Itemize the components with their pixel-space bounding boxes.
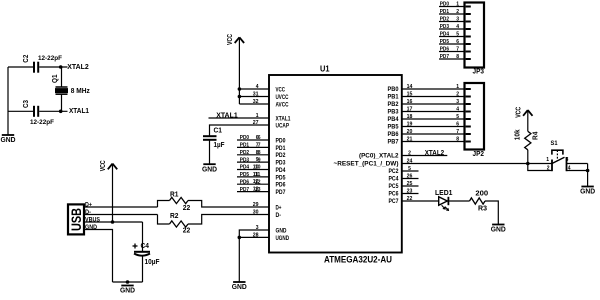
wire: net PD3 to IC [237, 161, 269, 163]
pin 19 (PB5) name+number [388, 121, 413, 130]
svg-text:PD7: PD7 [276, 189, 286, 196]
wire: PB1 to JP2 [402, 96, 465, 98]
wire: net PD5 to IC [237, 176, 269, 178]
svg-text:27: 27 [253, 120, 259, 126]
wire: XTAL1 net left [8, 110, 33, 112]
svg-text:PB3: PB3 [388, 109, 400, 116]
wire: GND pin 3 [239, 230, 269, 282]
crystal Q1 8MHz [52, 74, 90, 95]
svg-text:Q1: Q1 [52, 74, 59, 83]
wire: UVCC pin 31 [239, 96, 269, 98]
svg-text:UVCC: UVCC [276, 94, 289, 101]
svg-text:2: 2 [456, 91, 459, 97]
pin 29 (D+) name+number [253, 202, 282, 211]
svg-text:ATMEGA32U2-AU: ATMEGA32U2-AU [324, 254, 392, 264]
pin 2 ((PC0)_XTAL2) name+number [359, 150, 411, 159]
wire: PD3 net to JP3 [439, 28, 465, 30]
pin 13 (PD7) name+number [253, 187, 286, 196]
connector JP3 [465, 3, 485, 76]
svg-text:PD3: PD3 [276, 160, 286, 167]
wire: XTAL2 net left [8, 66, 33, 68]
svg-text:GND: GND [202, 164, 218, 173]
svg-text:8 MHz: 8 MHz [71, 88, 90, 95]
svg-text:1µF: 1µF [214, 142, 226, 149]
wire: XTAL2 net at IC [402, 155, 447, 157]
pin 8 (PD2) name+number [256, 150, 286, 159]
wire: USB D+ [84, 206, 158, 208]
svg-text:5: 5 [456, 114, 459, 120]
junction VCC/pin4 [238, 87, 242, 91]
resistor R3 200 [470, 191, 489, 213]
pin 7 (PD1) name+number [256, 142, 286, 151]
svg-text:13: 13 [255, 187, 261, 193]
svg-text:1: 1 [456, 84, 459, 90]
svg-text:PD3: PD3 [240, 157, 250, 163]
svg-text:UGND: UGND [276, 235, 290, 242]
svg-text:USB: USB [69, 208, 84, 231]
wire: PC5 stub [402, 185, 419, 187]
pin 10 (PD4) name+number [253, 165, 286, 174]
svg-text:6: 6 [456, 121, 459, 127]
wire: VBUS [84, 221, 143, 223]
svg-text:PD1: PD1 [240, 143, 250, 149]
svg-text:UCAP: UCAP [276, 122, 290, 129]
wire: net PD0 to IC [237, 139, 269, 141]
power VCC (IC supply) [227, 34, 244, 45]
svg-text:PB2: PB2 [388, 101, 400, 108]
wire: D- jog down [158, 215, 170, 225]
svg-text:8: 8 [456, 136, 459, 142]
svg-text:PD5: PD5 [240, 172, 250, 178]
pin 32 (AVCC) name+number [253, 99, 289, 108]
svg-text:200: 200 [475, 191, 488, 198]
svg-text:PD2: PD2 [240, 150, 249, 156]
svg-text:22: 22 [183, 205, 191, 212]
svg-text:PC5: PC5 [389, 183, 399, 190]
wire: jog to S1 pin 2 [528, 164, 552, 171]
power VCC (R4) [515, 107, 532, 118]
svg-text:PB5: PB5 [388, 124, 400, 131]
pin 4 (VCC) name+number [256, 84, 286, 93]
svg-text:8: 8 [258, 150, 261, 156]
svg-text:2: 2 [547, 165, 550, 171]
wire: net PD7 to IC [237, 191, 269, 193]
wire: R4 to RESET [527, 150, 529, 164]
pin 14 (PB0) name+number [388, 84, 414, 93]
wire: PC6 stub [402, 193, 419, 195]
svg-text:S1: S1 [551, 140, 558, 147]
svg-text:12: 12 [255, 179, 261, 185]
junction GND/UGND [238, 236, 242, 240]
pin 5 (PC2) name+number [389, 166, 411, 175]
wire: PB5 to JP2 [402, 126, 465, 128]
svg-text:PD7: PD7 [240, 187, 249, 193]
ground GND (R3) [491, 225, 507, 234]
svg-text:JP2: JP2 [473, 151, 485, 158]
node XTAL2 junction [59, 65, 63, 69]
wire: VCC to VBUS [112, 164, 114, 222]
svg-text:VCC: VCC [276, 86, 286, 93]
pin 28 (UGND) name+number [253, 232, 290, 241]
svg-text:PD4: PD4 [440, 32, 450, 38]
svg-text:PD2: PD2 [440, 17, 449, 23]
pin 30 (D-) name+number [253, 210, 281, 219]
svg-text:PC7: PC7 [389, 198, 399, 205]
wire: PC7 to LED [402, 200, 439, 202]
svg-text:PC2: PC2 [389, 168, 399, 175]
wire: PD0 net to JP3 [439, 6, 465, 8]
pin 20 (PB6) name+number [388, 129, 413, 138]
junction S1/gnd [586, 169, 590, 173]
wire: C4 to bottom [142, 256, 144, 282]
wire: VCC pin 4 [239, 88, 269, 90]
pin 24 (~RESET_(PC1_/_DW)) name+number [334, 158, 414, 167]
wire: AVCC pin 32 [239, 103, 269, 105]
wire: R3 to ground [485, 201, 498, 224]
svg-text:GND: GND [276, 227, 287, 234]
wire: PD6 net to JP3 [439, 51, 465, 53]
switch S1 [546, 140, 571, 172]
pin 26 (PC4) name+number [389, 173, 413, 182]
wire: PD2 net to JP3 [439, 21, 465, 23]
svg-text:PD0: PD0 [440, 2, 449, 8]
wire: PB3 to JP2 [402, 111, 465, 113]
svg-text:PD4: PD4 [276, 167, 286, 174]
ground GND (crystal) [1, 135, 17, 144]
svg-text:GND: GND [580, 187, 596, 196]
svg-text:GND: GND [232, 282, 248, 291]
pin 27 (UCAP) name+number [253, 120, 289, 129]
svg-text:5: 5 [456, 32, 459, 38]
svg-text:PB4: PB4 [388, 116, 400, 123]
wire: USB GND [84, 230, 113, 283]
svg-text:PD0: PD0 [240, 135, 249, 141]
wire: PB6 to JP2 [402, 133, 465, 135]
svg-text:U1: U1 [320, 65, 330, 74]
wire: S1 to ground [587, 164, 589, 187]
svg-text:1: 1 [256, 113, 259, 119]
svg-text:3: 3 [256, 225, 259, 231]
pin 12 (PD6) name+number [253, 179, 286, 188]
svg-text:R1: R1 [170, 191, 179, 198]
wire: LED to R3 [448, 200, 469, 202]
wire: D+ jog up [158, 201, 170, 208]
svg-text:10: 10 [255, 165, 261, 171]
wire: PB4 to JP2 [402, 118, 465, 120]
pin 22 (PC7) name+number [389, 196, 413, 205]
svg-text:1: 1 [456, 2, 459, 8]
svg-text:29: 29 [253, 202, 259, 208]
junction bottom gnd [126, 280, 130, 284]
svg-text:7: 7 [258, 143, 261, 149]
svg-text:PD6: PD6 [276, 182, 286, 189]
wire: PB7 to JP2 [402, 141, 465, 143]
svg-text:12-22pF: 12-22pF [30, 119, 54, 126]
svg-text:GND: GND [120, 286, 136, 295]
svg-text:PD3: PD3 [440, 24, 450, 30]
svg-text:3: 3 [456, 99, 459, 105]
pin 18 (PB4) name+number [388, 114, 413, 123]
svg-text:PD0: PD0 [276, 137, 286, 144]
wire: R2 to pin 30 [188, 215, 269, 225]
op-amp/IC U1 ATMEGA32U2-AU box [269, 75, 402, 253]
svg-text:D-: D- [276, 212, 282, 219]
wire: PD1 net to JP3 [439, 13, 465, 15]
pin 1 (XTAL1) name+number [256, 113, 291, 122]
ground GND (S1) [580, 187, 596, 196]
svg-text:R2: R2 [170, 213, 179, 220]
pin 15 (PB1) name+number [388, 91, 413, 100]
svg-text:11: 11 [255, 172, 261, 178]
svg-text:XTAL1: XTAL1 [69, 108, 89, 115]
svg-text:R3: R3 [478, 206, 487, 213]
svg-text:PC6: PC6 [389, 191, 399, 198]
wire: PB0 to JP2 [402, 88, 465, 90]
svg-text:XTAL2: XTAL2 [425, 150, 445, 157]
resistor R2 22 [170, 213, 191, 235]
pin 9 (PD3) name+number [256, 157, 286, 166]
svg-text:PB0: PB0 [388, 86, 400, 93]
pin 23 (PC6) name+number [389, 188, 413, 197]
pin 6 (PD0) name+number [256, 135, 286, 144]
wire: S1 pin 4 [567, 170, 588, 172]
svg-text:PB7: PB7 [388, 139, 400, 146]
svg-text:PD2: PD2 [276, 152, 286, 159]
ground GND (USB/C4) [120, 286, 136, 295]
wire: UGND pin 28 [239, 236, 269, 238]
wire: PD4 net to JP3 [439, 36, 465, 38]
pin 17 (PB3) name+number [388, 106, 413, 115]
svg-text:32: 32 [253, 99, 259, 105]
connector JP2 [465, 83, 485, 158]
ground GND (C1) [202, 164, 218, 173]
svg-text:7: 7 [456, 129, 459, 135]
svg-text:10k: 10k [515, 129, 522, 140]
svg-text:2: 2 [456, 9, 459, 15]
svg-text:XTAL1: XTAL1 [216, 113, 238, 120]
wire: net PD1 to IC [237, 146, 269, 148]
wire: C1 to ground [209, 140, 211, 164]
wire: USB D- [84, 214, 158, 216]
junction VCC/pin31 [238, 95, 242, 99]
svg-text:VCC: VCC [100, 160, 107, 171]
svg-text:PC4: PC4 [389, 176, 399, 183]
wire: net PD4 to IC [237, 169, 269, 171]
resistor R1 22 [170, 191, 191, 212]
svg-text:VCC: VCC [227, 34, 234, 45]
wire: PD7 net to JP3 [439, 58, 465, 60]
wire: net PD6 to IC [237, 183, 269, 185]
capacitor C2 [23, 55, 62, 73]
svg-text:PB6: PB6 [388, 131, 400, 138]
wire: net PD2 to IC [237, 154, 269, 156]
svg-text:7: 7 [456, 47, 459, 53]
wire: XTAL1 net at IC [209, 117, 270, 119]
wire: S1 pin 3 [567, 163, 588, 165]
svg-text:6: 6 [456, 39, 459, 45]
wire: VBUS to C4 [142, 222, 144, 252]
wire: GND rail left vertical [7, 67, 9, 135]
svg-text:D+: D+ [276, 204, 282, 211]
svg-text:6: 6 [258, 135, 261, 141]
svg-text:PD1: PD1 [440, 9, 450, 15]
svg-text:PD1: PD1 [276, 145, 286, 152]
junction RESET/R4/S1 [526, 162, 530, 166]
svg-text:PD4: PD4 [240, 165, 250, 171]
svg-text:1: 1 [546, 157, 549, 163]
svg-text:PB1: PB1 [388, 94, 400, 101]
svg-text:22: 22 [183, 228, 191, 235]
wire: VCC vertical to IC [238, 38, 240, 104]
svg-text:C1: C1 [214, 128, 223, 135]
pin 3 (GND) name+number [256, 225, 287, 234]
power VCC (USB/VBUS) [100, 160, 117, 171]
capacitor C1 [203, 128, 225, 149]
connector USB [68, 204, 84, 234]
svg-text:VCC: VCC [515, 107, 522, 118]
pin 21 (PB7) name+number [388, 136, 413, 145]
node XTAL1 junction [59, 110, 63, 114]
svg-text:28: 28 [253, 232, 259, 238]
pin 16 (PB2) name+number [388, 99, 413, 108]
svg-text:PD5: PD5 [276, 174, 286, 181]
wire: PD5 net to JP3 [439, 43, 465, 45]
wire: R1 to pin 29 [188, 201, 269, 208]
pin 25 (PC5) name+number [389, 181, 413, 190]
svg-text:8: 8 [456, 54, 459, 60]
svg-text:~RESET_(PC1_/_DW): ~RESET_(PC1_/_DW) [334, 161, 399, 168]
wire: PC2 stub [402, 170, 419, 172]
svg-text:10µF: 10µF [145, 259, 161, 266]
wire: UCAP pin 27 [210, 125, 270, 136]
svg-text:XTAL2: XTAL2 [67, 64, 89, 71]
svg-text:31: 31 [253, 92, 259, 98]
svg-text:C3: C3 [23, 100, 30, 108]
svg-text:JP3: JP3 [473, 68, 485, 75]
wire: crystal to XTAL1 [61, 94, 63, 111]
svg-text:R4: R4 [532, 131, 539, 140]
wire: PC4 stub [402, 178, 419, 180]
svg-text:GND: GND [1, 135, 17, 144]
svg-text:XTAL1: XTAL1 [276, 115, 291, 122]
capacitor C4 10uF [133, 243, 161, 266]
svg-text:3: 3 [456, 17, 459, 23]
svg-text:AVCC: AVCC [276, 101, 289, 108]
svg-text:3: 3 [566, 157, 569, 163]
capacitor C3 [23, 100, 54, 126]
svg-text:GND: GND [491, 225, 507, 234]
wire: crystal to XTAL2 [61, 67, 63, 87]
wire: bottom gnd run [113, 281, 143, 283]
svg-text:PD6: PD6 [240, 179, 250, 185]
wire: RESET net [402, 163, 552, 165]
pin 11 (PD5) name+number [253, 172, 286, 181]
junction VBUS/VCC [111, 220, 115, 224]
svg-text:12-22pF: 12-22pF [38, 55, 62, 62]
svg-text:9: 9 [258, 157, 261, 163]
svg-text:30: 30 [253, 210, 259, 216]
wire: PB2 to JP2 [402, 103, 465, 105]
svg-text:C4: C4 [141, 243, 150, 250]
svg-text:(PC0)_XTAL2: (PC0)_XTAL2 [359, 153, 399, 160]
svg-text:LED1: LED1 [435, 190, 453, 197]
svg-text:PD6: PD6 [440, 47, 450, 53]
svg-text:PD7: PD7 [440, 54, 449, 60]
wire: VCC to R4 [527, 111, 529, 132]
svg-text:C2: C2 [23, 55, 30, 63]
resistor R4 10k [515, 129, 540, 149]
svg-text:PD5: PD5 [440, 39, 450, 45]
LED LED1 [435, 190, 453, 211]
pin 31 (UVCC) name+number [253, 92, 289, 101]
ground GND (IC) [232, 282, 248, 291]
